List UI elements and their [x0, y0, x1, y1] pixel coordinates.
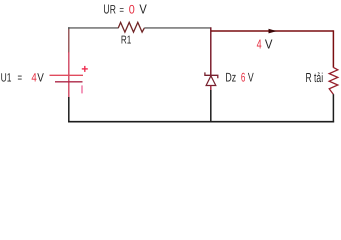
arrow on top-right wire	[269, 29, 277, 34]
svg-text:R: R	[110, 3, 116, 17]
svg-text:U: U	[103, 2, 109, 17]
wire: top horizontal segment from R1 to middle node	[144, 27, 211, 29]
svg-text:Dz: Dz	[225, 71, 236, 85]
wire: bottom horizontal	[68, 121, 334, 123]
wire: right vertical upper (dark red)	[332, 30, 334, 67]
svg-text:0: 0	[129, 3, 135, 17]
wire: middle vertical upper (dark red)	[210, 27, 212, 75]
svg-text:R1: R1	[121, 35, 131, 47]
svg-text:V: V	[139, 2, 147, 17]
wire: right vertical lower (black)	[332, 94, 334, 122]
svg-text:U1: U1	[1, 70, 12, 84]
label U1 = 4V	[1, 70, 44, 84]
label R tai	[306, 70, 324, 85]
label R1	[121, 35, 131, 47]
label 4 V	[257, 37, 273, 52]
wire: left vertical lower (black)	[68, 97, 70, 122]
battery plus sign	[82, 66, 88, 72]
svg-text:=: =	[119, 5, 124, 17]
svg-text:V: V	[248, 71, 254, 85]
wire: top-right horizontal (dark red)	[211, 30, 334, 32]
wire: left vertical upper (brick red)	[68, 27, 70, 53]
zener diode Dz	[205, 72, 218, 85]
wire: middle vertical below diode (red stub)	[210, 86, 212, 91]
wire: battery stub through plates (red)	[68, 52, 70, 98]
resistor R tai (load)	[329, 67, 338, 94]
battery minus mark	[81, 85, 83, 93]
wire: top-left horizontal segment from left column to R1	[68, 27, 118, 29]
label UR = 0 V	[103, 2, 147, 17]
svg-text:R tải: R tải	[306, 70, 324, 85]
resistor R1	[118, 22, 144, 32]
svg-text:6: 6	[241, 71, 246, 85]
svg-text:4: 4	[257, 37, 262, 52]
svg-text:V: V	[265, 37, 273, 52]
svg-text:V: V	[37, 70, 44, 84]
svg-text:=: =	[18, 70, 23, 84]
wire: middle vertical lower (black)	[210, 90, 212, 122]
battery U1 plates	[50, 75, 84, 82]
label Dz 6 V	[225, 71, 254, 85]
